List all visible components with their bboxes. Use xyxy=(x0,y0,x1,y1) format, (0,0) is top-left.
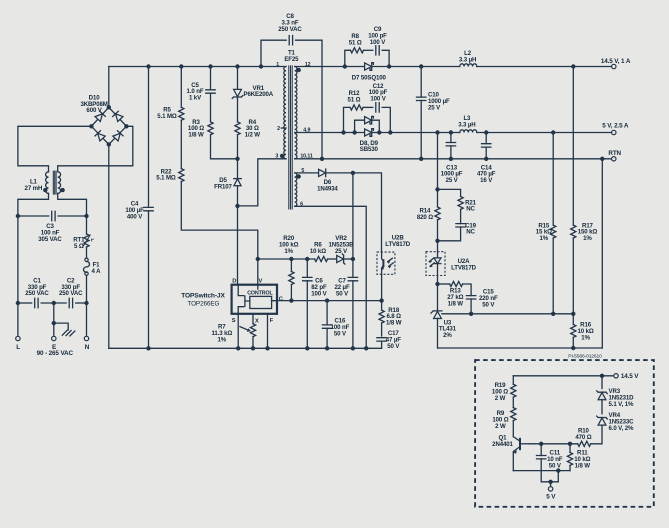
svg-text:2 W: 2 W xyxy=(495,423,506,430)
svg-text:V: V xyxy=(259,279,263,285)
op-amp U1 TOPSwitch-JX TOP266EG xyxy=(232,285,277,314)
resistor R14 820ohm xyxy=(435,207,440,220)
wire: L1 left bottom to L terminal column xyxy=(18,193,49,336)
capacitor C16 100nF 50V xyxy=(326,301,328,325)
svg-text:SB530: SB530 xyxy=(360,146,379,153)
diode D5 FR107 xyxy=(234,179,242,186)
transformer T1 EF25 xyxy=(280,65,301,209)
resistor R16 10k 1% xyxy=(572,314,574,325)
inductor L2 3.3uH xyxy=(460,64,477,67)
terminal N xyxy=(84,336,88,340)
svg-text:4 A: 4 A xyxy=(92,268,102,275)
svg-text:EF25: EF25 xyxy=(284,56,299,63)
zener VR2 1N5253B 25V xyxy=(328,258,337,260)
svg-text:1/8 W: 1/8 W xyxy=(448,300,464,307)
terminal inset 14.5V xyxy=(614,374,618,378)
svg-text:100 V: 100 V xyxy=(370,39,386,46)
svg-text:820 Ω: 820 Ω xyxy=(417,214,433,221)
svg-text:600 V: 600 V xyxy=(86,107,102,114)
svg-text:2N4401: 2N4401 xyxy=(492,441,513,448)
resistor R13 27k 1/8W xyxy=(438,283,450,285)
svg-text:1/8 W: 1/8 W xyxy=(386,320,402,327)
terminal L xyxy=(16,336,20,340)
capacitor C14 470uF 16V xyxy=(485,133,487,144)
svg-text:2: 2 xyxy=(277,126,280,132)
wire: TL431 ref line xyxy=(442,313,573,315)
svg-text:NC: NC xyxy=(466,229,475,236)
svg-text:3: 3 xyxy=(275,153,278,159)
wire: primary bottom rail (source return) xyxy=(109,347,382,349)
wire: bridge AC right to L1 xyxy=(58,126,133,172)
svg-text:3.3 µH: 3.3 µH xyxy=(458,122,475,129)
opto LED U2A LTV817D xyxy=(426,241,445,284)
capacitor C17 47uF 50V xyxy=(377,338,386,341)
svg-text:1 kV: 1 kV xyxy=(189,95,202,102)
svg-text:D7 50SQ100: D7 50SQ100 xyxy=(352,74,387,81)
svg-text:3.3 µH: 3.3 µH xyxy=(459,56,476,63)
svg-text:100 V: 100 V xyxy=(370,96,386,103)
capacitor C5 1.0nF 1kV clamp xyxy=(210,67,212,90)
svg-text:TOP266EG: TOP266EG xyxy=(187,300,219,307)
resistor R5 5.1Mohm line sense xyxy=(180,67,182,108)
capacitor C13 1000uF 25V xyxy=(450,133,452,143)
svg-text:250 VAC: 250 VAC xyxy=(25,290,49,297)
capacitor C1 330pF 250VAC xyxy=(18,302,32,304)
resistor R10 470ohm xyxy=(578,441,591,446)
thermistor RT1 5ohm xyxy=(83,234,94,247)
svg-text:PI-5586-012610: PI-5586-012610 xyxy=(568,354,602,360)
svg-text:90 - 265 VAC: 90 - 265 VAC xyxy=(37,350,74,357)
svg-text:D: D xyxy=(232,279,236,285)
svg-text:25 V: 25 V xyxy=(428,104,441,111)
wire: F pin to source rail xyxy=(267,314,269,349)
terminal 5V output xyxy=(612,130,616,134)
svg-text:5.1 V, 1%: 5.1 V, 1% xyxy=(609,401,634,408)
svg-text:1%: 1% xyxy=(540,235,549,242)
wire: Q1 emitter line xyxy=(513,470,570,472)
wire: bias return pin 6 to source rail xyxy=(295,206,367,348)
svg-text:100 V: 100 V xyxy=(311,290,327,297)
wire: drain node to transformer pin 3 xyxy=(238,159,287,206)
svg-text:C: C xyxy=(279,297,283,303)
resistor R9 100ohm 2W xyxy=(512,397,514,407)
snubber C9 100pF 100V xyxy=(343,46,392,69)
opto transistor U2B LTV817D xyxy=(377,252,395,274)
svg-text:50 V: 50 V xyxy=(482,301,495,308)
fuse F1 4A xyxy=(85,258,88,261)
svg-text:250 VAC: 250 VAC xyxy=(278,26,302,33)
svg-text:5.1 MΩ: 5.1 MΩ xyxy=(157,113,177,120)
shunt regulator U3 TL431 2% xyxy=(431,284,442,348)
svg-text:1%: 1% xyxy=(284,248,293,255)
resistor R6 10k xyxy=(315,256,328,261)
wire: R22 to V pin of U1 xyxy=(181,182,257,285)
wire: RTN line pins 10,11 to output xyxy=(295,158,612,160)
resistor R17 150k 1% xyxy=(572,67,574,226)
wire: inset top 14.5V xyxy=(513,375,614,377)
dashed inset box xyxy=(475,360,654,507)
svg-text:5 Ω: 5 Ω xyxy=(74,243,84,250)
resistor R21 NC xyxy=(438,189,464,209)
svg-text:5.1 MΩ: 5.1 MΩ xyxy=(156,175,176,182)
svg-text:25 V: 25 V xyxy=(335,248,348,255)
zener VR3 1N5231D 5.1V 1% xyxy=(601,376,603,389)
transistor Q1 2N4401 xyxy=(513,421,529,471)
svg-text:1N4934: 1N4934 xyxy=(317,186,338,193)
svg-text:1/8 W: 1/8 W xyxy=(188,132,204,139)
svg-text:S: S xyxy=(232,318,236,324)
svg-text:CONTROL: CONTROL xyxy=(247,290,273,296)
resistor R18 6.8ohm 1/8W xyxy=(381,301,383,311)
capacitor C15 220nF 50V xyxy=(463,284,472,296)
svg-text:1/8 W: 1/8 W xyxy=(575,462,591,469)
svg-text:t°: t° xyxy=(91,238,94,243)
svg-text:14.5 V, 1 A: 14.5 V, 1 A xyxy=(601,58,631,65)
svg-text:470 Ω: 470 Ω xyxy=(575,434,591,441)
resistor R4 30ohm 1/2W xyxy=(235,122,240,135)
svg-text:1%: 1% xyxy=(583,235,592,242)
svg-text:FR107: FR107 xyxy=(214,183,232,190)
svg-text:50 V: 50 V xyxy=(334,330,347,337)
wire: primary + top rail from bridge to transformer pin 1 xyxy=(109,66,286,68)
wire: 5V to feedback chain xyxy=(437,133,439,190)
wire: U2B emitter to C line xyxy=(381,274,383,300)
wire: secondary common return line xyxy=(438,347,603,349)
resistor R22 5.1Mohm line sense xyxy=(180,120,182,168)
common-mode choke L1 27mH xyxy=(43,171,65,195)
svg-text:L: L xyxy=(16,344,20,351)
svg-text:LTV817D: LTV817D xyxy=(385,241,411,248)
diode D7 50SQ100 xyxy=(365,63,374,71)
wire: secondary 14.5V line pin12 to output xyxy=(295,66,460,68)
svg-text:1%: 1% xyxy=(218,336,227,343)
resistor R7 11.3k 1% on X pin xyxy=(240,314,256,351)
svg-text:2%: 2% xyxy=(443,332,452,339)
wire: S pin to source rail xyxy=(237,314,239,349)
diode D6 1N4934 xyxy=(295,172,319,174)
capacitor C8 3.3nF 250VAC xyxy=(259,36,324,162)
wire: RTN down to secondary common xyxy=(601,159,603,348)
svg-text:5 V, 2.5 A: 5 V, 2.5 A xyxy=(602,123,629,130)
capacitor C19 NC xyxy=(438,209,466,240)
TVS VR1 P6KE200A xyxy=(237,67,239,90)
svg-text:25 V: 25 V xyxy=(446,177,459,184)
wire: E branch with earth ground xyxy=(53,303,55,336)
svg-text:NC: NC xyxy=(466,206,475,213)
svg-text:1/2 W: 1/2 W xyxy=(245,132,261,139)
svg-text:14.5 V: 14.5 V xyxy=(621,373,639,380)
diode D8 SB530 parallel xyxy=(352,116,381,134)
earth ground symbol xyxy=(62,330,75,336)
wire: bridge negative to bottom rail xyxy=(108,144,110,348)
snubber C12 100pF 100V xyxy=(341,103,392,135)
capacitor C3 100nF 305VAC xyxy=(18,215,49,217)
wire: V/X feed line R6-VR2 xyxy=(258,258,315,260)
capacitor C11 10nF 50V xyxy=(537,442,559,482)
capacitor C4 100uF 400V xyxy=(148,67,150,208)
svg-text:400 V: 400 V xyxy=(127,213,143,220)
resistor R15 15k 1% xyxy=(552,133,554,226)
svg-text:10 kΩ: 10 kΩ xyxy=(310,248,326,255)
svg-text:6.0 V, 2%: 6.0 V, 2% xyxy=(609,425,634,432)
svg-text:LTV817D: LTV817D xyxy=(451,265,477,272)
svg-text:50 V: 50 V xyxy=(549,462,562,469)
terminal inset 5V xyxy=(548,480,552,492)
svg-text:50 V: 50 V xyxy=(336,290,349,297)
svg-text:N: N xyxy=(85,344,90,351)
svg-text:P6KE200A: P6KE200A xyxy=(244,91,274,98)
svg-text:51 Ω: 51 Ω xyxy=(348,97,361,104)
terminal 14.5V output xyxy=(612,64,616,68)
svg-text:5 V: 5 V xyxy=(546,494,556,501)
terminal RTN xyxy=(612,157,616,161)
svg-text:1%: 1% xyxy=(581,334,590,341)
svg-text:50 V: 50 V xyxy=(387,343,400,350)
zener VR4 1N5233C 6.0V 2% xyxy=(601,399,603,413)
svg-text:51 Ω: 51 Ω xyxy=(349,40,362,47)
svg-text:16 V: 16 V xyxy=(480,177,493,184)
wire: bridge AC left to L1 xyxy=(18,126,92,172)
svg-text:250 VAC: 250 VAC xyxy=(59,290,83,297)
svg-text:TOPSwitch-JX: TOPSwitch-JX xyxy=(181,293,225,300)
wire: Q1 base node line xyxy=(529,443,578,445)
diode D9 SB530 xyxy=(365,129,374,137)
resistor R11 10k 1/8W xyxy=(569,444,571,453)
snubber R8 51ohm xyxy=(345,48,364,67)
resistor R3 100ohm 1/8W xyxy=(210,93,212,122)
inductor L3 3.3uH xyxy=(460,130,477,133)
svg-text:27 mH: 27 mH xyxy=(25,185,43,192)
svg-text:X: X xyxy=(255,318,259,324)
resistor R19 100ohm 2W xyxy=(512,376,514,384)
terminal E xyxy=(52,336,56,340)
wire: secondary 5V line pin 4,9 to output xyxy=(295,132,460,134)
capacitor C10 1000uF 25V xyxy=(420,67,422,98)
bridge rectifier D10 3KBP08M xyxy=(89,67,128,147)
svg-text:305 VAC: 305 VAC xyxy=(38,236,62,243)
capacitor C6 82pF 100V xyxy=(306,259,308,277)
wire: L1 right bottom to RT1/F1 column xyxy=(58,193,87,234)
svg-text:2 W: 2 W xyxy=(495,395,506,402)
resistor R20 100k 1% xyxy=(290,259,292,272)
snubber R12 51ohm xyxy=(344,105,364,133)
svg-text:RTN: RTN xyxy=(608,150,621,157)
capacitor C7 22uF 50V xyxy=(352,173,354,278)
wire: C pin line xyxy=(277,300,382,302)
svg-text:1: 1 xyxy=(276,62,279,68)
capacitor C2 330pF 250VAC xyxy=(41,302,66,304)
